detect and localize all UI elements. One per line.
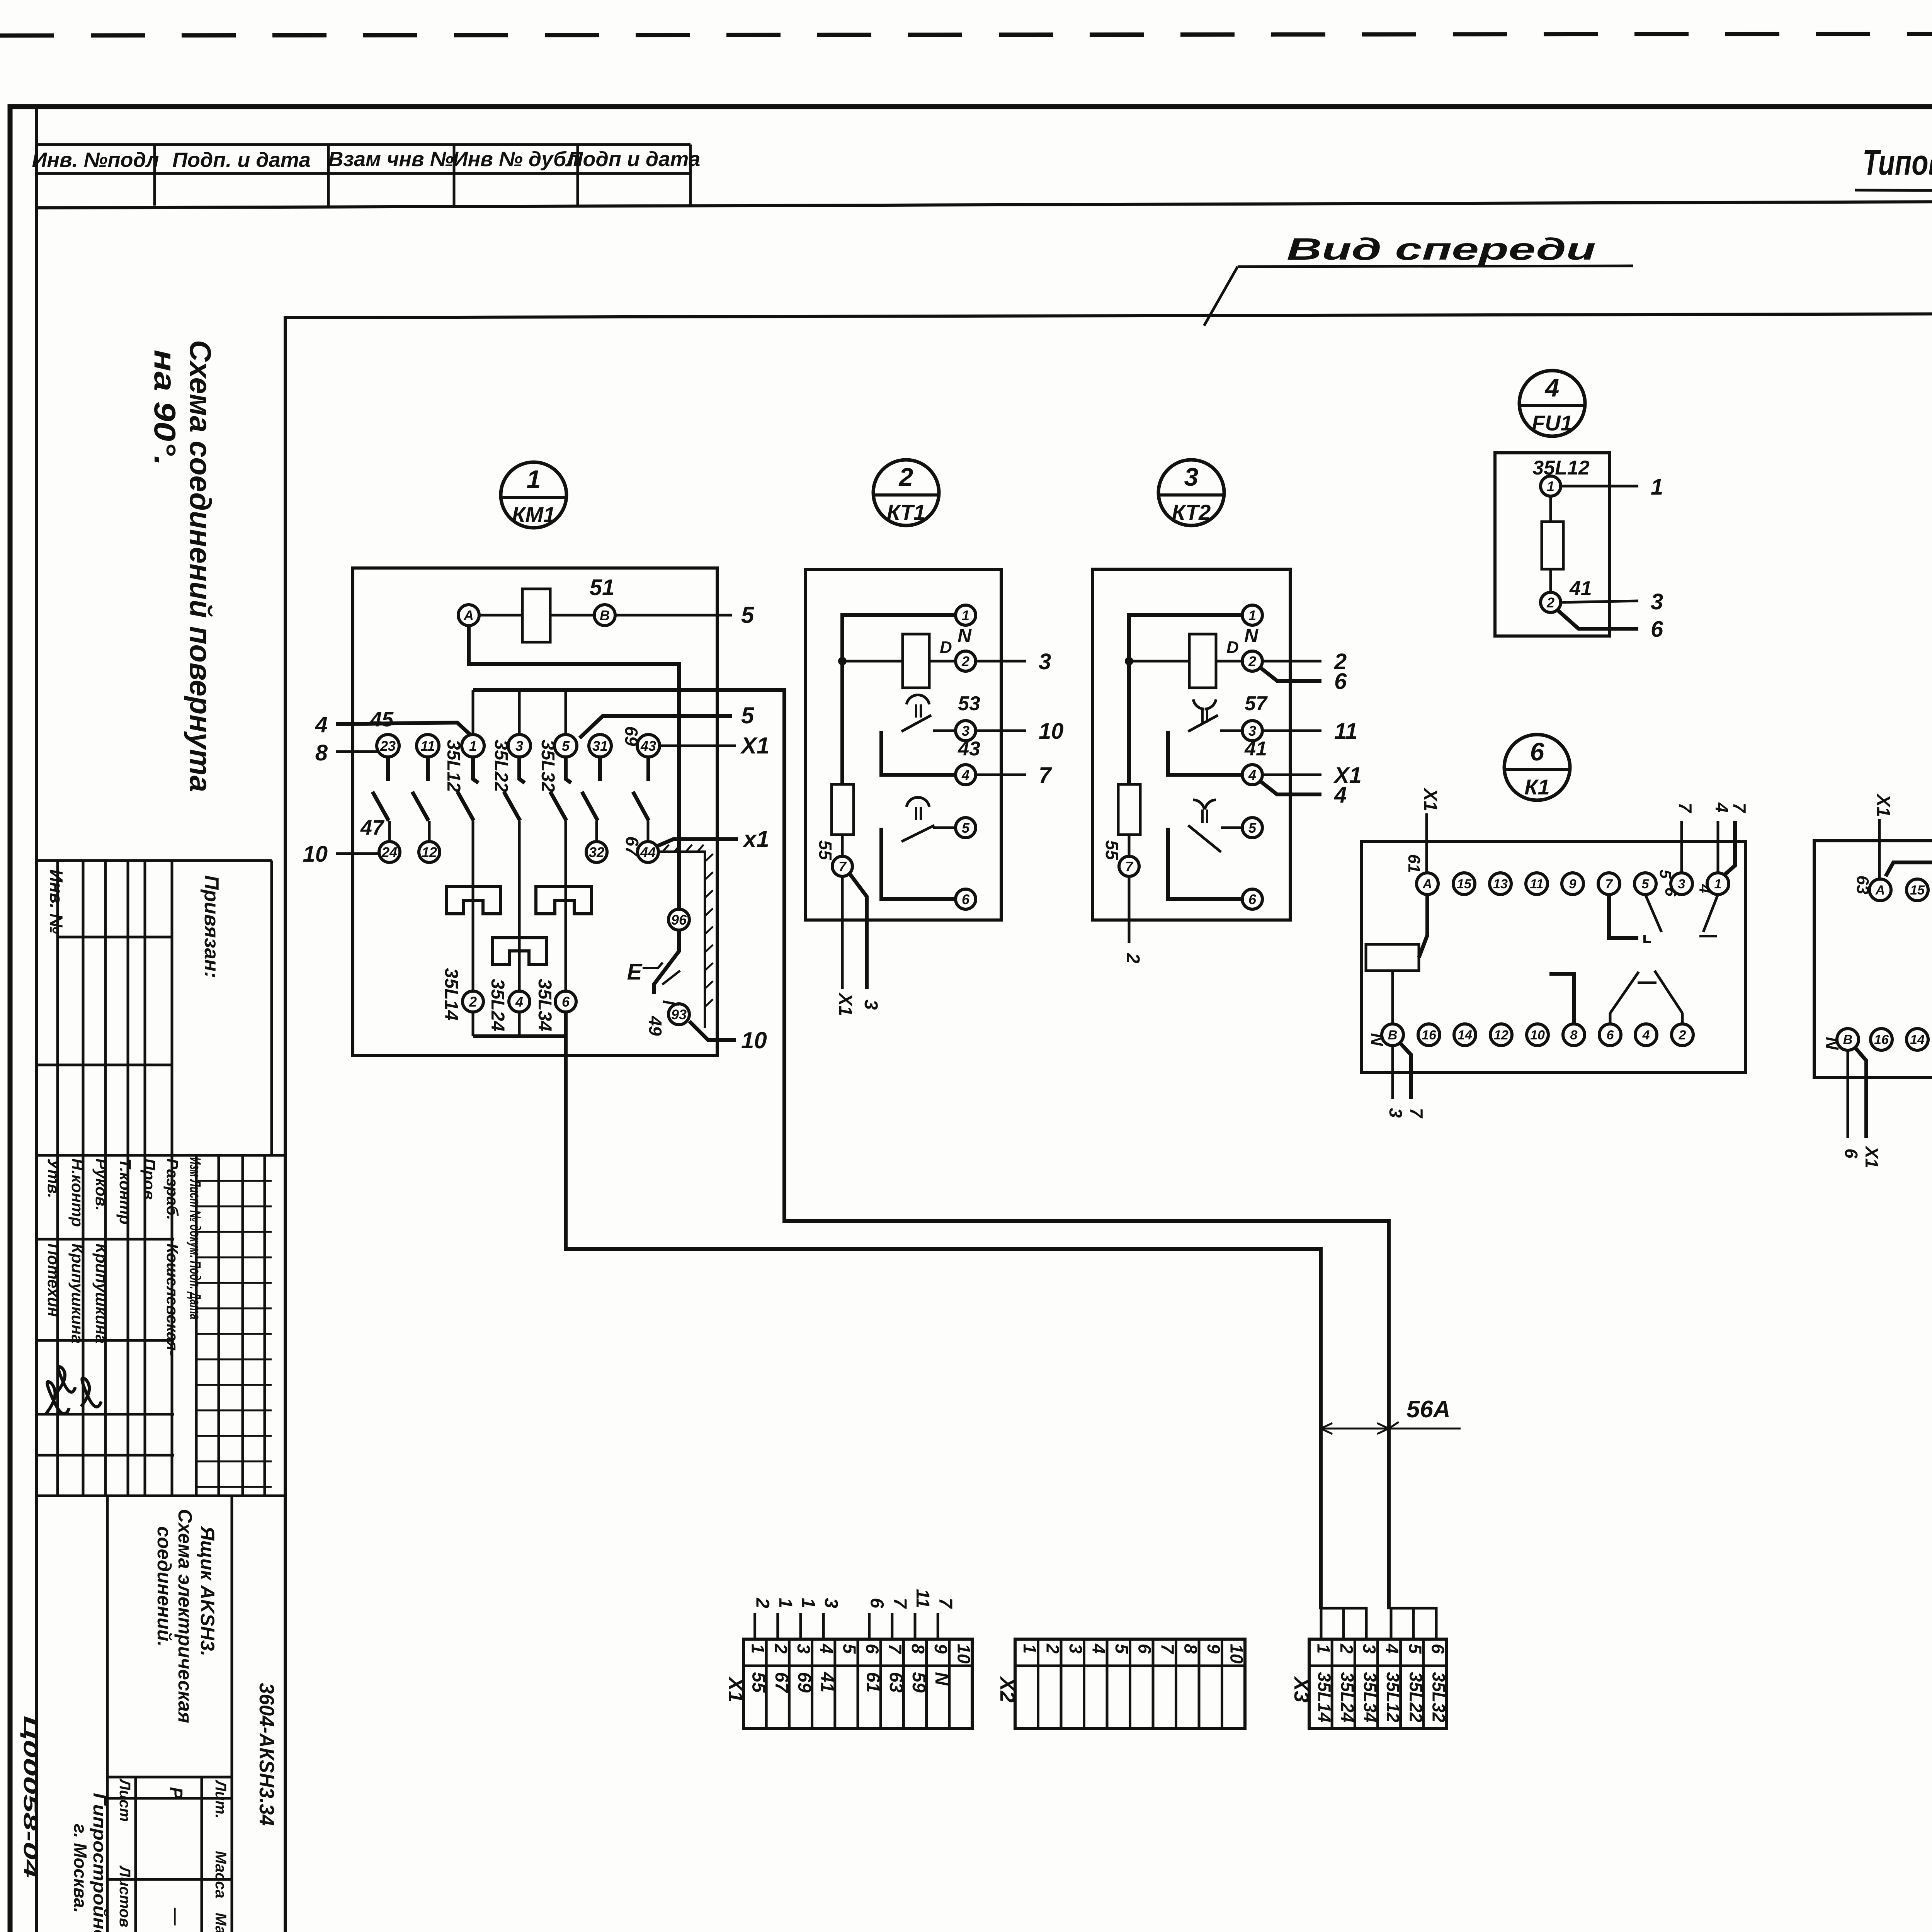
KM1 bottom bus and cable wire to X3: [472, 1012, 474, 1036]
K1 contact wire from pin 7: [1609, 895, 1638, 938]
svg-text:4: 4: [1382, 1643, 1402, 1654]
svg-text:5: 5: [1248, 820, 1257, 836]
svg-text:11: 11: [1334, 719, 1357, 744]
svg-text:6: 6: [1248, 891, 1257, 907]
time relay KT2 id circle 3: [1158, 460, 1224, 526]
svg-text:x1: x1: [742, 826, 769, 852]
svg-text:D: D: [1226, 638, 1239, 657]
svg-text:Подп. и дата: Подп. и дата: [172, 148, 311, 172]
svg-text:12: 12: [1494, 1028, 1509, 1043]
KM1 main terminal 2, label 35L14: [463, 991, 483, 1012]
svg-text:51: 51: [590, 575, 615, 600]
svg-text:93: 93: [671, 1007, 687, 1022]
svg-text:N: N: [931, 1672, 952, 1686]
svg-text:4: 4: [1088, 1643, 1109, 1654]
svg-text:Кошелевская-: Кошелевская-: [163, 1243, 182, 1356]
svg-text:В: В: [1388, 1028, 1398, 1043]
svg-text:43: 43: [640, 738, 656, 754]
KT2 lead 11 from terminal 3: [1262, 730, 1321, 732]
svg-text:5: 5: [839, 1644, 859, 1654]
KT2 leads 2 and 6 from terminal 2: [1262, 660, 1321, 663]
svg-text:11: 11: [1530, 877, 1543, 891]
svg-text:1: 1: [775, 1598, 796, 1608]
svg-text:3: 3: [821, 1598, 841, 1608]
svg-text:14: 14: [1458, 1028, 1472, 1043]
svg-text:N: N: [1822, 1037, 1842, 1050]
KT2 resistor: [1118, 784, 1140, 835]
main drawing box top edge: [285, 312, 1932, 318]
svg-text:55: 55: [1102, 840, 1122, 861]
KM1 coil: [522, 589, 550, 642]
svg-text:8: 8: [908, 1644, 928, 1654]
svg-text:Крипушкина: Крипушкина: [92, 1243, 111, 1344]
K1 socket pin 6 bottom row: [1599, 1024, 1621, 1046]
svg-text:X3: X3: [1290, 1676, 1313, 1702]
svg-text:10: 10: [303, 842, 328, 867]
K1 coil: [1366, 944, 1419, 971]
svg-text:49: 49: [645, 1015, 665, 1036]
KT2 junction dot: [1125, 657, 1133, 665]
svg-text:61: 61: [1405, 854, 1423, 873]
KM1 main terminal 4, label 35L24: [509, 991, 530, 1012]
KM1 arc chute box over pole 4: [492, 938, 546, 964]
svg-text:6: 6: [1841, 1148, 1861, 1158]
svg-text:Схема электрическая: Схема электрическая: [174, 1509, 196, 1723]
svg-text:41: 41: [1569, 577, 1592, 600]
svg-text:6: 6: [962, 891, 970, 907]
K1 lead 7 above pin 3: [1680, 821, 1683, 873]
svg-text:9: 9: [1204, 1644, 1224, 1654]
KT2 terminal 5: [1242, 818, 1262, 838]
svg-text:6: 6: [867, 1598, 887, 1608]
svg-text:7: 7: [1730, 803, 1750, 813]
svg-text:4: 4: [1696, 884, 1714, 893]
svg-text:4: 4: [1248, 767, 1256, 783]
svg-text:9: 9: [1569, 877, 1577, 891]
svg-text:4: 4: [1642, 1028, 1650, 1043]
svg-text:КТ1: КТ1: [887, 500, 925, 524]
top-left registration table: [37, 143, 690, 146]
svg-text:12: 12: [422, 844, 437, 860]
KT2 terminal 4, label 41: [1242, 765, 1262, 785]
svg-text:35L22: 35L22: [1406, 1672, 1426, 1723]
svg-text:32: 32: [589, 844, 604, 860]
svg-text:16: 16: [1874, 1032, 1889, 1047]
svg-text:Подп и дата: Подп и дата: [568, 148, 701, 171]
KM1 main terminal 6, label 35L34: [555, 991, 576, 1012]
KM1 bottom terminal 44, label 67: [638, 842, 658, 862]
svg-text:5: 5: [741, 702, 755, 728]
svg-text:5: 5: [741, 602, 755, 628]
svg-text:на 90°.: на 90°.: [148, 350, 182, 466]
svg-text:5: 5: [1405, 1644, 1425, 1654]
svg-text:4: 4: [1544, 373, 1560, 402]
svg-text:соединений.: соединений.: [153, 1526, 175, 1646]
svg-text:1: 1: [962, 607, 969, 623]
svg-text:5: 5: [962, 820, 970, 836]
svg-text:Т.контр: Т.контр: [116, 1158, 134, 1225]
svg-text:7: 7: [838, 859, 847, 874]
KM1 main pole 3-4 with label 35L22: [519, 757, 525, 783]
svg-text:7: 7: [889, 1598, 910, 1609]
svg-text:59: 59: [908, 1672, 929, 1693]
svg-text:57: 57: [1245, 692, 1268, 715]
K1 socket pin 7 top row: [1598, 873, 1620, 895]
K1 socket pin 5 top row: [1634, 873, 1656, 895]
KT2 terminal 2, label N: [1242, 651, 1262, 671]
K1 contact blade 1-fixed: [1703, 895, 1718, 932]
svg-text:1: 1: [1020, 1644, 1040, 1654]
KM1 switch blade 43-44: [646, 757, 650, 781]
KM1 switch blade 11-12: [426, 757, 430, 781]
svg-text:Н.контр: Н.контр: [68, 1158, 87, 1227]
svg-text:10: 10: [1530, 1028, 1545, 1043]
svg-text:3: 3: [861, 1000, 881, 1010]
wire 1 to X1 terminal 3: [799, 1613, 802, 1639]
svg-text:г. Москва.: г. Москва.: [70, 1824, 90, 1913]
svg-text:Р: Р: [166, 1787, 186, 1799]
wire 6 to X1 terminal 6: [868, 1613, 871, 1639]
KT2 coil with D label: [1189, 634, 1216, 688]
svg-text:2: 2: [961, 653, 969, 669]
KT1 junction dot: [838, 657, 847, 665]
svg-text:15: 15: [1910, 883, 1925, 898]
KT1 bottom leads X1 and 3: [841, 876, 844, 989]
svg-text:Инв. №подл: Инв. №подл: [32, 148, 159, 172]
svg-text:3: 3: [962, 723, 969, 739]
svg-text:35L12: 35L12: [1383, 1672, 1403, 1723]
svg-text:4: 4: [315, 712, 328, 737]
title band separator line: [37, 199, 1932, 208]
KT1 lead 7 from terminal 4: [976, 774, 1026, 776]
svg-text:Потехин: Потехин: [44, 1243, 63, 1317]
svg-text:Инв № дубл: Инв № дубл: [453, 148, 579, 171]
KM1 arc chute box over pole 6: [536, 886, 592, 914]
KM1 main terminal 1: [462, 735, 484, 757]
svg-text:2: 2: [1679, 1028, 1686, 1043]
KT2 terminal 3, label 57: [1242, 721, 1262, 741]
svg-text:35L12: 35L12: [1532, 457, 1590, 479]
svg-text:2: 2: [1043, 1643, 1063, 1654]
KT1 terminal 2, label N: [956, 651, 976, 671]
KM1 lower bus wire with lead 5: [580, 716, 732, 738]
KM1 aux contact terminal 23, label 45: [377, 735, 399, 757]
svg-text:10: 10: [1226, 1644, 1247, 1664]
svg-text:7: 7: [1605, 877, 1614, 891]
svg-text:24: 24: [381, 844, 397, 860]
svg-text:1: 1: [1547, 478, 1554, 494]
svg-text:6: 6: [862, 1644, 883, 1654]
svg-text:2: 2: [1546, 595, 1554, 611]
svg-text:Лист: Лист: [116, 1778, 133, 1822]
terminal block X1: [743, 1639, 972, 1729]
svg-text:6: 6: [1334, 669, 1347, 694]
KT2 wire 1 to left rail: [1129, 615, 1242, 784]
svg-text:1: 1: [1714, 877, 1722, 891]
svg-text:1: 1: [527, 465, 541, 493]
svg-text:47: 47: [360, 816, 385, 839]
K1 socket pin 4 bottom row: [1635, 1024, 1657, 1046]
K1 leads 3 and 7 below pin B: [1391, 1046, 1394, 1099]
KM1 bottom terminal 12: [419, 842, 440, 862]
KM1 arc chute box over pole 2: [446, 886, 500, 914]
KT1 terminal 6: [956, 889, 976, 909]
svg-text:6: 6: [1530, 737, 1545, 766]
svg-text:8: 8: [315, 740, 328, 765]
KT1 delayed contact lower: [906, 797, 929, 807]
svg-text:2: 2: [1248, 653, 1256, 669]
svg-text:4: 4: [961, 767, 969, 783]
svg-text:—: —: [166, 1907, 186, 1926]
svg-text:КТ2: КТ2: [1172, 500, 1211, 524]
svg-text:Привязан:: Привязан:: [200, 875, 223, 978]
svg-text:Ящик AKSH3.: Ящик AKSH3.: [197, 1526, 218, 1656]
K2 lead X1 from pin A: [1878, 819, 1881, 879]
svg-text:6: 6: [1651, 617, 1663, 642]
svg-text:В: В: [1843, 1032, 1853, 1047]
wire 2 to X1 terminal 1: [753, 1613, 756, 1639]
K1 socket pin 15 top row: [1453, 873, 1475, 895]
KM1 main terminal 3: [508, 735, 531, 757]
KT2 leads X1 and 4 from terminal 4: [1262, 774, 1321, 776]
terminal block X2: [1015, 1639, 1245, 1729]
X3 jumper comb right: [1391, 1608, 1436, 1639]
K1 socket pin 8 bottom row: [1563, 1024, 1585, 1046]
svg-text:Листов 1: Листов 1: [116, 1865, 133, 1932]
svg-text:3: 3: [1359, 1644, 1379, 1654]
wire 7 to X1 terminal 9: [937, 1613, 939, 1639]
svg-text:1: 1: [1651, 474, 1663, 500]
svg-text:X2: X2: [996, 1676, 1019, 1702]
svg-text:2: 2: [1337, 1643, 1357, 1654]
svg-text:Масса: Масса: [212, 1851, 229, 1898]
svg-text:3: 3: [1066, 1644, 1086, 1654]
svg-text:N: N: [1367, 1033, 1387, 1046]
relay K1 id circle 6: [1504, 735, 1570, 800]
K1 socket pin В bottom row: [1382, 1024, 1403, 1046]
svg-text:7: 7: [885, 1644, 905, 1655]
svg-text:5: 5: [1642, 877, 1650, 891]
K1 socket pin 16 bottom row: [1418, 1024, 1440, 1046]
KM1 auxiliary contact 93, label 49: [668, 1004, 689, 1025]
svg-text:8: 8: [1180, 1644, 1201, 1654]
K2 socket pin 16 bottom row: [1871, 1029, 1892, 1050]
svg-text:96: 96: [671, 912, 687, 928]
KM1 lead 10 from 93: [689, 1021, 736, 1040]
svg-text:X1: X1: [835, 992, 855, 1016]
wire 11 to X1 terminal 8: [914, 1613, 917, 1639]
svg-text:Гипростройнош: Гипростройнош: [90, 1793, 110, 1932]
svg-text:А: А: [1422, 877, 1432, 891]
KT2 terminal 1: [1242, 605, 1262, 625]
svg-text:69: 69: [621, 726, 641, 746]
KT1 delayed contact upper: [906, 695, 929, 704]
K1 wire A to coil to B: [1419, 895, 1427, 957]
KT1 resistor: [832, 784, 854, 835]
K1 contact blade 5-fixed: [1645, 895, 1662, 932]
svg-text:35L24: 35L24: [1337, 1672, 1357, 1722]
svg-text:6: 6: [1662, 887, 1680, 896]
KT1 terminal 3, label 53: [956, 721, 976, 741]
svg-text:3: 3: [1248, 723, 1256, 739]
K2 body box: [1814, 841, 1932, 1078]
svg-text:В: В: [600, 607, 610, 623]
svg-text:1: 1: [798, 1598, 818, 1608]
svg-text:X1: X1: [740, 733, 769, 759]
svg-text:D: D: [940, 638, 952, 657]
svg-text:53: 53: [958, 692, 980, 715]
svg-text:Ц00058-04: Ц00058-04: [20, 1716, 40, 1878]
svg-text:6: 6: [1134, 1644, 1155, 1654]
KM1 aux terminal 43, label 69: [637, 735, 660, 757]
terminal block X3: [1309, 1639, 1446, 1729]
FU1 body box: [1495, 453, 1610, 636]
svg-text:55: 55: [815, 840, 835, 861]
svg-text:Пров.: Пров.: [140, 1158, 158, 1204]
KT1 coil with D label: [903, 634, 929, 688]
svg-text:63: 63: [886, 1672, 906, 1693]
KT2 delayed contact lower: [1193, 800, 1204, 810]
svg-text:10: 10: [954, 1644, 974, 1664]
svg-text:1: 1: [1314, 1644, 1334, 1654]
KM1 lead X1 from 43: [660, 745, 736, 747]
svg-text:Инв. №: Инв. №: [46, 869, 66, 934]
svg-text:35L24: 35L24: [487, 979, 508, 1031]
main drawing box left edge: [284, 316, 287, 1932]
svg-text:5: 5: [562, 738, 570, 754]
KM1 coil terminal A: [458, 605, 479, 626]
svg-text:4: 4: [1712, 802, 1732, 813]
KT1 terminal 4, label 43: [956, 765, 976, 785]
KM1 aux terminal 31: [589, 735, 611, 757]
svg-text:3604-АКSH3.34: 3604-АКSH3.34: [255, 1683, 278, 1826]
K1 body box: [1362, 842, 1745, 1073]
svg-text:X1: X1: [1862, 1145, 1882, 1168]
svg-text:43: 43: [957, 738, 980, 760]
svg-text:X1: X1: [724, 1676, 747, 1702]
KM1 bottom terminal 32: [586, 842, 607, 862]
KT1 lead 10 from terminal 3: [976, 730, 1026, 732]
svg-text:7: 7: [1675, 803, 1696, 813]
svg-text:8: 8: [1570, 1028, 1578, 1043]
svg-text:4: 4: [515, 994, 523, 1010]
svg-text:35L14: 35L14: [1315, 1672, 1335, 1722]
svg-text:67: 67: [771, 1672, 792, 1694]
KT1 terminal 1: [956, 605, 976, 625]
KM1 lead x1 from 44: [657, 839, 738, 846]
svg-text:35L12: 35L12: [443, 740, 464, 792]
svg-text:6: 6: [562, 994, 570, 1010]
contactor KM1 body box: [353, 568, 717, 1056]
svg-text:1: 1: [1248, 607, 1256, 623]
svg-text:55: 55: [748, 1672, 769, 1693]
svg-text:Взам чнв №: Взам чнв №: [328, 148, 454, 171]
svg-text:4: 4: [1334, 782, 1347, 808]
svg-text:2: 2: [469, 994, 477, 1010]
FU1 leads 3 and 6: [1561, 601, 1638, 602]
FU1 lead 1: [1561, 485, 1638, 488]
K1 lower contact group: [1549, 974, 1574, 1024]
time relay KT1 id circle 2: [873, 460, 939, 526]
K2 socket pin А top row: [1869, 879, 1891, 901]
svg-text:2: 2: [1122, 953, 1143, 964]
KM1 aux contact terminal 11: [417, 735, 439, 757]
wire 1 to X1 terminal 2: [776, 1613, 779, 1639]
KM1 switch blade 23-24: [386, 757, 390, 781]
svg-text:63: 63: [1853, 876, 1872, 895]
K1 socket pin 10 bottom row: [1527, 1024, 1548, 1046]
K1 socket pin 14 bottom row: [1454, 1024, 1476, 1046]
KT1 terminal 7, label 55: [841, 835, 844, 856]
KT2 body box: [1092, 569, 1290, 920]
svg-text:Масштаб: Масштаб: [212, 1913, 229, 1932]
svg-text:FU1: FU1: [1532, 411, 1573, 435]
KM1 auxiliary contact 96: [668, 909, 689, 930]
svg-text:67: 67: [622, 836, 642, 857]
svg-text:X1: X1: [1420, 787, 1440, 811]
svg-text:41: 41: [1244, 738, 1267, 760]
K1 socket pin 12 bottom row: [1490, 1024, 1512, 1046]
K2 socket pin 14 bottom row: [1906, 1029, 1928, 1050]
svg-text:А: А: [1875, 883, 1885, 898]
wire from A down to contact 96 chain: [469, 626, 679, 909]
svg-text:35L34: 35L34: [534, 979, 555, 1031]
svg-text:6: 6: [1607, 1028, 1614, 1043]
K2 socket pin 15 top row: [1906, 879, 1928, 901]
svg-text:N: N: [957, 625, 972, 646]
FU1 terminal 2, label 41: [1541, 592, 1561, 612]
svg-text:3: 3: [515, 738, 523, 754]
K2 jumper wire A to 7: [1886, 862, 1932, 879]
FU1 fuse element: [1549, 496, 1552, 522]
svg-text:41: 41: [817, 1672, 837, 1692]
bottom stamp cells: [106, 1496, 109, 1932]
svg-text:7: 7: [1125, 859, 1134, 874]
inner frame left binding line: [35, 107, 38, 1932]
svg-text:45: 45: [370, 708, 394, 731]
svg-text:35L32: 35L32: [1429, 1672, 1449, 1723]
KM1 main terminal 5: [554, 735, 577, 757]
KT1 wire 1 to left rail: [842, 615, 956, 784]
svg-text:Утв.: Утв.: [44, 1158, 63, 1198]
svg-text:10: 10: [741, 1027, 767, 1053]
svg-text:Лит.: Лит.: [212, 1779, 229, 1818]
KT2 delayed contact upper: [1193, 699, 1204, 709]
revision table row lines: [196, 1180, 272, 1182]
contactor KM1 id circle 1: [501, 462, 566, 528]
svg-text:10: 10: [1039, 719, 1064, 744]
wire 3 to X1 terminal 4: [822, 1613, 825, 1639]
svg-text:4: 4: [816, 1643, 837, 1654]
svg-text:7: 7: [935, 1598, 956, 1609]
svg-text:3: 3: [1651, 589, 1663, 614]
K1 lead X1 from pin A: [1425, 813, 1428, 873]
svg-text:56А: 56А: [1406, 1396, 1451, 1423]
KT2 terminal 7, label 55: [1128, 835, 1131, 856]
svg-text:2: 2: [771, 1643, 791, 1654]
svg-text:11: 11: [420, 738, 435, 754]
wire 7 to X1 terminal 7: [891, 1613, 893, 1639]
svg-text:15: 15: [1457, 877, 1472, 891]
svg-text:35L34: 35L34: [1360, 1672, 1380, 1722]
K1 socket pin 2 bottom row: [1672, 1024, 1693, 1046]
svg-text:2: 2: [752, 1597, 773, 1608]
svg-text:N: N: [1244, 625, 1259, 646]
svg-text:КМ1: КМ1: [512, 502, 555, 527]
KT1 terminal 5: [956, 818, 976, 838]
KM1 main pole 5-6 with label 35L32: [566, 757, 571, 783]
svg-text:7: 7: [1158, 1644, 1178, 1655]
